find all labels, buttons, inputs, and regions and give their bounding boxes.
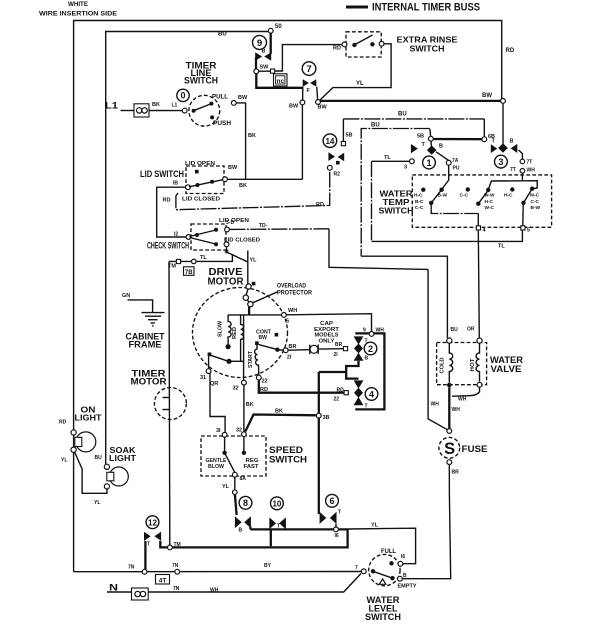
svg-text:32: 32	[233, 386, 239, 392]
svg-text:7B: 7B	[185, 270, 193, 276]
svg-text:RED: RED	[232, 327, 238, 339]
timer line switch	[105, 61, 248, 128]
svg-text:I2: I2	[174, 232, 178, 238]
svg-text:T: T	[365, 404, 368, 410]
wire internal timer buss box top (BU)	[106, 32, 269, 465]
water temp contact B	[466, 187, 470, 191]
svg-text:SPEED: SPEED	[269, 445, 304, 455]
timer contact 2	[334, 328, 385, 410]
svg-text:B: B	[403, 573, 407, 579]
svg-text:T: T	[147, 542, 150, 548]
svg-text:B: B	[510, 139, 514, 145]
extra rinse switch	[333, 32, 458, 57]
node BW junction	[316, 100, 321, 105]
wire lid switch left to check switch	[157, 187, 187, 237]
svg-text:PUSH: PUSH	[213, 121, 231, 127]
svg-text:BU: BU	[371, 123, 380, 129]
svg-text:BK: BK	[246, 402, 254, 408]
svg-text:6: 6	[329, 496, 334, 506]
svg-text:1: 1	[426, 158, 431, 168]
svg-text:8: 8	[243, 498, 248, 508]
wire BR motor to cap connector to contact 2	[288, 344, 343, 354]
nc box	[274, 74, 288, 86]
svg-text:WH: WH	[527, 168, 536, 174]
svg-text:B-C: B-C	[415, 199, 424, 205]
svg-text:PULL: PULL	[212, 95, 228, 101]
water level switch	[355, 548, 417, 622]
wire TM vertical down through timer motor	[168, 261, 171, 545]
svg-text:RD: RD	[59, 420, 67, 426]
svg-text:nc: nc	[277, 78, 285, 85]
svg-text:BU: BU	[398, 112, 407, 118]
wire Z link contact 2 to contact 4	[346, 361, 358, 379]
svg-text:BR: BR	[289, 344, 297, 350]
svg-text:BU: BU	[95, 455, 103, 461]
wire BW bus to right	[320, 100, 503, 102]
svg-text:MOTOR: MOTOR	[208, 277, 245, 288]
svg-text:5: 5	[286, 319, 289, 325]
svg-text:7T: 7T	[510, 167, 516, 173]
overload protector	[243, 283, 312, 315]
wire BU2 to node 5B	[429, 129, 432, 137]
svg-text:FAST: FAST	[244, 464, 259, 470]
wire N line to water level switch	[148, 574, 361, 593]
svg-text:S: S	[444, 439, 455, 458]
svg-text:I6: I6	[335, 533, 339, 539]
svg-text:YL: YL	[250, 258, 258, 264]
ground cabinet frame	[122, 293, 165, 350]
wire WH left branch to fuse	[428, 269, 448, 430]
timer contact 3	[491, 139, 535, 174]
svg-text:YL: YL	[94, 500, 100, 506]
wire outer border top	[74, 21, 502, 572]
svg-text:INTERNAL TIMER BUSS: INTERNAL TIMER BUSS	[372, 2, 480, 14]
wire bus YL bottom contacts	[250, 528, 348, 530]
timer contact 7	[302, 62, 317, 100]
node 50 on timer buss	[268, 28, 273, 33]
wire BK to node 3B	[245, 415, 317, 432]
svg-text:BR: BR	[452, 470, 460, 476]
svg-text:RD: RD	[333, 46, 341, 52]
svg-text:22: 22	[262, 379, 268, 385]
wire WH motor 5 to contact 2 top	[286, 314, 371, 332]
svg-text:10: 10	[272, 500, 281, 509]
lid switch	[140, 161, 247, 204]
svg-text:BW: BW	[482, 93, 492, 99]
svg-text:3-D: 3-D	[226, 220, 234, 226]
svg-text:WHITE: WHITE	[68, 1, 89, 8]
svg-text:MOTOR: MOTOR	[131, 377, 168, 387]
svg-text:PU: PU	[453, 166, 460, 172]
svg-text:2I: 2I	[287, 355, 292, 361]
svg-text:7N: 7N	[128, 565, 135, 571]
wire thick bus 5B to 6B	[433, 138, 482, 140]
wire YL check switch to drive motor	[227, 247, 248, 284]
timer contact 6	[320, 494, 341, 527]
svg-text:BW: BW	[228, 165, 238, 171]
water valve	[437, 327, 524, 388]
svg-text:5B: 5B	[417, 134, 424, 140]
svg-text:M-C: M-C	[530, 193, 540, 199]
node 5B	[429, 136, 434, 141]
water temp terminals 4 and 5	[476, 226, 480, 230]
wire OR terminal 4 to water valve	[478, 230, 479, 338]
svg-text:SWITCH: SWITCH	[379, 207, 414, 216]
svg-text:PROTECTOR: PROTECTOR	[277, 290, 312, 297]
svg-text:SWITCH: SWITCH	[269, 455, 307, 465]
wire TL terminal 3	[372, 155, 523, 250]
wire RD branch to 3B vertical	[319, 371, 346, 373]
wire BW down to lid switch	[301, 105, 303, 180]
timer contact 4	[334, 380, 378, 409]
svg-text:31: 31	[200, 375, 206, 381]
wire bottom bus 7N/BY	[74, 563, 362, 574]
svg-text:RD: RD	[163, 198, 171, 204]
timer contact 14	[316, 133, 353, 209]
wire 31 to speed switch	[210, 373, 225, 432]
svg-text:WH: WH	[431, 402, 440, 408]
wire TD from check switch right	[229, 228, 329, 231]
svg-text:QR: QR	[210, 381, 218, 387]
svg-text:4: 4	[369, 389, 374, 399]
wire YL motor top	[247, 251, 249, 263]
svg-text:B-W: B-W	[438, 193, 448, 199]
svg-text:50: 50	[275, 24, 282, 30]
drive motor	[193, 267, 288, 378]
svg-text:OVERLOAD: OVERLOAD	[277, 283, 306, 290]
wire YL from extra rinse to BW node	[319, 44, 391, 101]
svg-text:12: 12	[148, 519, 157, 528]
svg-text:BR: BR	[335, 342, 343, 348]
svg-text:R2: R2	[334, 172, 341, 178]
svg-text:FULL: FULL	[381, 548, 396, 555]
svg-text:7: 7	[355, 565, 358, 571]
timer contact 10	[269, 497, 286, 546]
svg-text:BLOW: BLOW	[208, 464, 224, 470]
svg-text:B-W: B-W	[531, 205, 541, 211]
svg-text:4T: 4T	[159, 577, 167, 584]
svg-text:B: B	[439, 144, 443, 150]
svg-text:N: N	[109, 583, 118, 593]
svg-text:SW: SW	[260, 65, 270, 71]
water temp contact A	[442, 165, 449, 189]
wire BU1 from contact 14 terminal to node 6B	[342, 119, 344, 141]
wire to nc terminal	[259, 70, 271, 72]
svg-text:FRAME: FRAME	[129, 340, 162, 350]
svg-text:WH: WH	[288, 308, 297, 314]
svg-text:BW: BW	[289, 104, 299, 110]
svg-text:7T: 7T	[527, 160, 533, 166]
svg-text:BK: BK	[248, 133, 256, 139]
svg-text:BU: BU	[218, 32, 227, 38]
svg-text:2: 2	[368, 344, 373, 354]
svg-text:H-C: H-C	[504, 193, 513, 199]
svg-text:YL: YL	[356, 81, 364, 87]
svg-text:7A: 7A	[452, 158, 459, 164]
svg-text:32: 32	[236, 428, 242, 434]
water temp contact C	[510, 187, 514, 191]
svg-text:9: 9	[363, 328, 366, 334]
svg-text:C-C: C-C	[531, 199, 540, 205]
svg-text:RD: RD	[506, 48, 515, 54]
wire RD up to extra rinse switch	[275, 45, 343, 71]
svg-text:3: 3	[498, 157, 503, 167]
svg-text:RD: RD	[316, 202, 324, 208]
svg-text:7: 7	[306, 64, 311, 75]
svg-text:SWITCH: SWITCH	[365, 612, 401, 622]
svg-text:C-C: C-C	[460, 193, 469, 199]
svg-text:RD: RD	[337, 388, 345, 394]
on light	[59, 405, 102, 464]
svg-text:5B: 5B	[346, 133, 353, 139]
wire bus TM bottom	[172, 529, 347, 547]
svg-text:8A: 8A	[240, 476, 247, 482]
wire BW down to contact 3	[502, 103, 504, 144]
svg-text:BK: BK	[239, 183, 247, 189]
svg-text:ONLY: ONLY	[319, 338, 335, 344]
svg-text:14: 14	[325, 137, 334, 146]
wire WH valve to fuse	[448, 387, 450, 428]
neutral plug N	[107, 583, 148, 601]
svg-text:B: B	[365, 356, 369, 362]
wire thick bus contact 9 to contact 7	[256, 73, 303, 88]
wire TD down and right to fuse branch	[329, 229, 428, 270]
svg-text:H-C: H-C	[414, 193, 423, 199]
svg-text:SLOW: SLOW	[218, 320, 224, 337]
svg-text:B: B	[239, 528, 243, 534]
svg-text:WIRE INSERTION SIDE: WIRE INSERTION SIDE	[39, 11, 118, 18]
svg-text:BW: BW	[318, 105, 328, 111]
svg-text:WH: WH	[210, 588, 219, 594]
svg-text:LID CLOSED: LID CLOSED	[182, 197, 220, 203]
svg-text:BY: BY	[264, 563, 272, 569]
svg-text:CHECK SWITCH: CHECK SWITCH	[147, 241, 189, 251]
svg-text:SWITCH: SWITCH	[184, 76, 218, 86]
svg-text:LIGHT: LIGHT	[109, 453, 137, 463]
svg-text:3B: 3B	[323, 415, 330, 421]
svg-text:TL: TL	[200, 255, 207, 261]
svg-text:WH: WH	[458, 397, 467, 403]
svg-text:TD-: TD-	[259, 223, 268, 229]
drive motor internals	[200, 308, 297, 393]
fuse	[439, 429, 488, 476]
svg-text:BK: BK	[275, 409, 283, 415]
timer contact 9	[253, 33, 272, 70]
wire RD from lid switch to contact 14	[176, 170, 330, 210]
svg-text:BK: BK	[152, 102, 160, 108]
svg-text:COLD: COLD	[440, 357, 446, 373]
svg-text:GN: GN	[122, 293, 130, 299]
svg-text:L1: L1	[172, 103, 178, 109]
legend INTERNAL TIMER BUSS	[346, 2, 480, 14]
svg-text:C-C: C-C	[415, 205, 424, 211]
wire YL speed switch to contact 8	[222, 477, 237, 515]
svg-text:EMPTY: EMPTY	[398, 584, 417, 590]
svg-text:FUSE: FUSE	[462, 444, 488, 454]
svg-text:2I: 2I	[334, 352, 339, 358]
svg-text:WH: WH	[376, 328, 385, 334]
timer contact 8	[235, 496, 252, 533]
svg-text:H-C: H-C	[485, 199, 494, 205]
svg-text:SWITCH: SWITCH	[410, 44, 445, 54]
svg-text:YL: YL	[61, 458, 67, 464]
wire WH valve hot loop	[452, 387, 480, 396]
svg-text:START: START	[248, 350, 254, 368]
svg-text:BW: BW	[238, 95, 248, 101]
water temp switch	[379, 165, 552, 234]
svg-text:BU: BU	[451, 327, 459, 333]
svg-text:3I: 3I	[216, 428, 221, 434]
wire YL to water level switch	[348, 528, 416, 564]
svg-text:VALVE: VALVE	[491, 364, 522, 374]
svg-text:BW: BW	[259, 335, 268, 341]
wire TL/TM bus	[168, 254, 232, 276]
svg-text:I6: I6	[401, 554, 405, 560]
svg-text:HOT: HOT	[470, 359, 476, 372]
svg-text:LIGHT: LIGHT	[75, 413, 103, 423]
svg-text:W-C: W-C	[485, 205, 495, 211]
svg-text:B: B	[262, 49, 266, 55]
wire 3B vertical	[318, 372, 320, 413]
svg-text:IB: IB	[173, 181, 178, 187]
svg-text:W-W: W-W	[484, 193, 495, 199]
timer contact 1	[411, 141, 460, 172]
wire BR fuse to water level switch	[402, 465, 450, 579]
svg-text:22: 22	[334, 397, 340, 403]
wire YL lights link	[75, 452, 107, 493]
timer contact 12	[144, 516, 167, 570]
node TM	[168, 545, 173, 550]
wire lid switch right to BW vertical	[227, 178, 302, 180]
svg-text:3: 3	[404, 165, 407, 171]
svg-text:T: T	[338, 510, 341, 516]
soak light	[95, 445, 137, 489]
node SW below contact 9	[254, 69, 259, 74]
svg-text:9: 9	[257, 38, 262, 49]
svg-text:LID CLOSED: LID CLOSED	[224, 238, 260, 244]
svg-text:TL: TL	[384, 155, 391, 161]
wire BK 32 to speed switch	[243, 385, 245, 432]
svg-text:0: 0	[180, 91, 185, 101]
wire RD motor 22 to contact 4	[259, 380, 344, 393]
timer motor	[131, 369, 187, 420]
note WHITE WIRE INSERTION SIDE	[39, 1, 118, 18]
note CAP EXPORT MODELS ONLY	[314, 321, 340, 344]
node BW right	[501, 99, 506, 104]
svg-text:5: 5	[527, 228, 530, 234]
svg-text:7N: 7N	[172, 563, 179, 569]
svg-text:TL: TL	[498, 244, 505, 250]
svg-text:L1: L1	[105, 101, 118, 111]
svg-text:YL: YL	[371, 523, 379, 529]
svg-text:WH: WH	[452, 407, 461, 413]
wire BK from timer line switch down	[236, 103, 245, 179]
svg-text:7N: 7N	[173, 586, 180, 592]
check switch	[147, 218, 260, 256]
node BW left below contact 7	[300, 100, 305, 105]
node 6B	[482, 137, 487, 142]
svg-text:OR: OR	[467, 327, 475, 333]
svg-text:LID SWITCH: LID SWITCH	[140, 169, 184, 179]
terminal 4T	[156, 575, 170, 585]
speed switch	[201, 428, 307, 483]
svg-text:YL: YL	[222, 484, 230, 490]
